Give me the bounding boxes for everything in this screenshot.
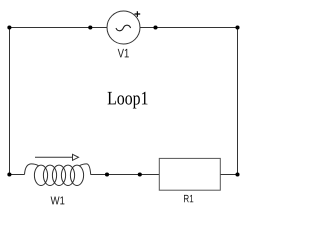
- source V1 plus polarity mark: [135, 11, 141, 17]
- wire top-right segment: [140, 27, 238, 29]
- source V1 body: [107, 11, 140, 44]
- wire bottom-middle segment: [91, 174, 160, 176]
- resistor R1 body: [159, 158, 220, 190]
- label V1: [118, 49, 129, 58]
- wire right vertical: [237, 28, 239, 175]
- node V1 left junction: [88, 25, 92, 29]
- node V1 right junction: [153, 25, 157, 29]
- node top-left junction: [7, 25, 11, 29]
- inductor W1 current arrow: [35, 154, 79, 160]
- node label Loop1: [108, 92, 148, 109]
- node bottom-left junction: [7, 172, 11, 176]
- node R1 left junction: [138, 172, 142, 176]
- wire left vertical: [9, 28, 11, 175]
- node top-right junction: [235, 25, 239, 29]
- wire bottom-right segment: [221, 174, 238, 176]
- wire bottom-left segment: [9, 174, 25, 176]
- source V1 sine symbol: [116, 25, 131, 31]
- inductor W1 coil: [25, 164, 91, 186]
- node W1 right junction: [105, 172, 109, 176]
- label W1: [51, 197, 65, 205]
- wire top-left segment: [9, 27, 108, 29]
- node bottom-right junction: [235, 172, 239, 176]
- label R1: [184, 195, 193, 202]
